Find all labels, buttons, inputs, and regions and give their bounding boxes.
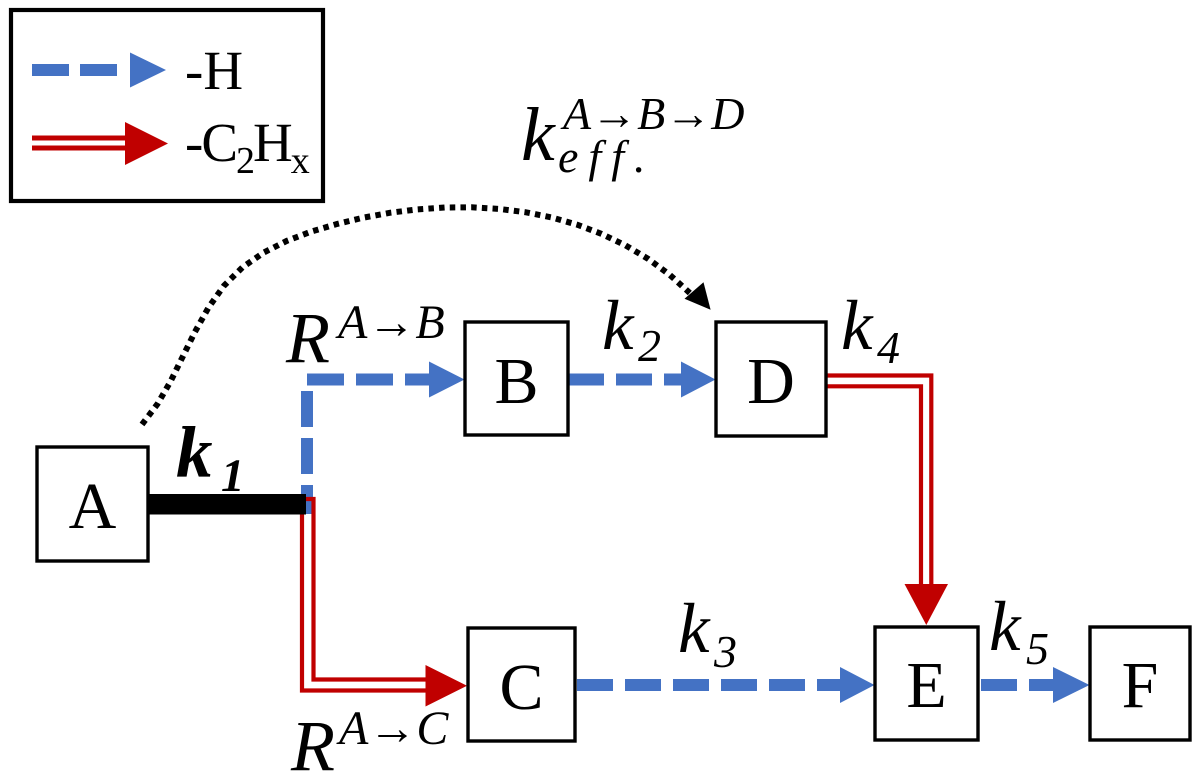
label k3: [678, 590, 737, 677]
svg-text:k: k: [989, 588, 1022, 666]
svg-text:k: k: [841, 287, 874, 365]
blue dashed path junction to B (vertical + horizontal): [307, 362, 465, 515]
svg-text:2: 2: [638, 320, 661, 371]
box C: [468, 628, 575, 741]
box F: [1090, 627, 1190, 740]
svg-text:A→C: A→C: [336, 702, 449, 755]
legend label -C2Hx: [185, 112, 310, 182]
red double line A-junction down to C with arrow: [302, 499, 467, 707]
svg-text:-H: -H: [185, 40, 243, 101]
svg-text:R: R: [290, 706, 335, 776]
box A: [37, 447, 148, 561]
svg-text:B: B: [494, 345, 538, 418]
label k1: [176, 412, 245, 502]
box B: [465, 322, 568, 435]
label R A->B: [285, 296, 445, 378]
svg-text:E: E: [906, 649, 946, 722]
box E: [875, 627, 978, 740]
label k2: [602, 287, 661, 371]
svg-text:k: k: [176, 412, 213, 493]
label R A->C: [290, 702, 449, 776]
svg-text:k: k: [678, 590, 711, 668]
svg-text:A→B: A→B: [335, 296, 445, 349]
svg-text:1: 1: [221, 450, 245, 502]
label k4: [841, 287, 900, 373]
red double line D to E with arrow: [826, 376, 948, 626]
legend blue dashed arrow: [32, 53, 166, 88]
svg-text:C: C: [499, 651, 543, 724]
svg-text:5: 5: [1026, 623, 1049, 674]
blue dashed arrow C to E, label k3: [577, 667, 875, 703]
svg-text:F: F: [1122, 649, 1159, 722]
legend red double arrow: [32, 122, 168, 165]
svg-text:k: k: [602, 287, 635, 365]
svg-text:A: A: [69, 470, 117, 543]
box D: [716, 322, 826, 436]
svg-text:R: R: [285, 298, 330, 378]
legend box: [11, 10, 323, 201]
blue dashed arrow E to F, label k5: [981, 667, 1090, 703]
label k5: [989, 588, 1049, 674]
svg-text:eff.: eff.: [558, 131, 655, 182]
label k_eff A->B->D: [521, 88, 744, 182]
thick black k1 bond line: [148, 494, 306, 515]
dotted effective-rate arc A to D: [142, 207, 711, 424]
svg-text:D: D: [747, 345, 795, 418]
svg-text:4: 4: [877, 322, 900, 373]
blue dashed arrow B to D, label k2: [568, 362, 716, 398]
svg-text:k: k: [521, 93, 556, 177]
svg-text:3: 3: [713, 626, 737, 677]
legend label -H: [185, 40, 243, 101]
